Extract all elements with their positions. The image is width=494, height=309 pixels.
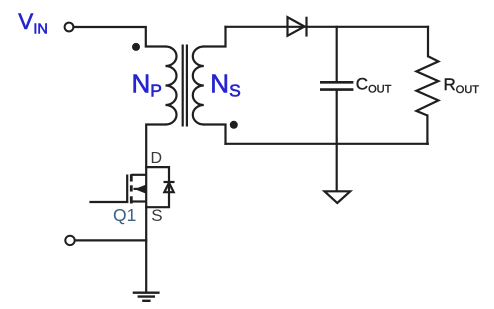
channel bar middle (130, 185, 133, 191)
svg-text:ROUT: ROUT (444, 75, 480, 96)
MOSFET Q1 (127, 174, 146, 203)
input terminal (Vin) (65, 23, 74, 32)
transformer core (182, 45, 184, 127)
wire input rail from Vin terminal to primary top (74, 27, 166, 47)
wire bottom output rail (226, 143, 428, 145)
polarity dot secondary (230, 121, 238, 129)
body diode loop wires (146, 167, 169, 207)
wire drain-source vertical through MOSFET (145, 167, 147, 207)
wire gate stub to lower terminal row (91, 201, 128, 203)
wire Rout bottom lead (426, 116, 428, 144)
drain connection (131, 174, 146, 176)
wire Rout top lead (427, 27, 429, 57)
svg-text:VIN: VIN (18, 9, 48, 38)
wire Cout branch top (336, 27, 338, 81)
capacitor C_OUT (320, 82, 353, 89)
wire Cout branch bottom through rail to ground (336, 91, 338, 191)
gate line (126, 175, 128, 204)
output diode D1 (288, 17, 307, 37)
transformer T1 primary winding (166, 47, 177, 125)
lower input terminal (65, 236, 74, 245)
wire secondary top stub up to output rail (204, 27, 226, 47)
svg-text:NP: NP (132, 69, 162, 101)
wire lower terminal to source node (75, 239, 146, 241)
ground primary (earth) (133, 293, 160, 301)
body connection (134, 188, 147, 190)
svg-text:S: S (151, 206, 162, 225)
source connection (131, 200, 146, 202)
polarity dot primary (132, 43, 140, 51)
wire source node down to ground (145, 207, 147, 293)
wire top output rail (226, 26, 429, 28)
ground secondary (triangle) (325, 191, 351, 203)
wire secondary bottom stub down to bottom rail (204, 125, 226, 144)
transformer T1 secondary winding (193, 47, 204, 125)
svg-text:COUT: COUT (356, 75, 392, 96)
MOSFET body arrow (135, 185, 146, 194)
resistor R_OUT (416, 56, 438, 115)
body diode symbol (164, 182, 175, 192)
svg-text:NS: NS (210, 69, 240, 101)
wire primary bottom stub down to MOSFET drain (146, 125, 165, 168)
channel bar top (130, 174, 133, 181)
svg-text:D: D (151, 150, 163, 167)
channel bar bottom (130, 196, 133, 203)
svg-text:Q1: Q1 (113, 205, 136, 225)
